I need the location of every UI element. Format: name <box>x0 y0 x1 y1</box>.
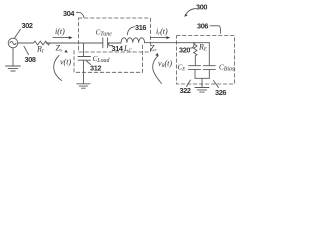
svg-text:320: 320 <box>179 46 190 55</box>
label 320 <box>179 45 194 55</box>
current i(t) arrow <box>53 27 73 39</box>
label 322 <box>180 80 191 95</box>
inductor L_C <box>121 38 145 54</box>
svg-text:300: 300 <box>196 3 207 12</box>
voltage v(t) curved arrow <box>54 56 72 81</box>
wire node into box <box>84 42 103 44</box>
resistor R_E <box>194 43 207 56</box>
dashed box 306 (receiver) <box>177 36 235 84</box>
capacitor C_Bias <box>203 64 235 73</box>
wire source to resistor <box>18 42 34 44</box>
svg-text:322: 322 <box>180 86 191 95</box>
label 326 <box>214 81 227 98</box>
svg-text:304: 304 <box>63 9 75 18</box>
wire inductor to right box <box>145 42 210 44</box>
wire source to ground <box>12 48 14 66</box>
label 302 <box>15 21 33 38</box>
capacitor C_Load <box>78 55 109 64</box>
wire main to C_Bias <box>208 43 210 66</box>
ground (source) <box>6 66 21 71</box>
ground (load) <box>77 84 90 88</box>
figure label 300 <box>184 3 207 17</box>
wire cap to ground <box>83 60 85 83</box>
capacitor C_Tune <box>96 28 113 48</box>
wire bottom rail <box>195 77 209 79</box>
label 314 <box>108 43 123 53</box>
label 306 <box>197 22 221 34</box>
svg-text:308: 308 <box>25 55 36 64</box>
impedance Zs arrow <box>56 44 68 54</box>
resistor R1 <box>34 41 51 54</box>
wire C_Bias to bottom rail <box>208 70 210 79</box>
label 308 <box>24 46 36 64</box>
AC source V1 <box>8 38 18 48</box>
svg-text:316: 316 <box>135 23 146 32</box>
label 304 <box>63 9 84 18</box>
dashed box (load region) <box>74 44 143 72</box>
wire R_E to cap <box>194 56 196 66</box>
svg-text:312: 312 <box>90 64 101 73</box>
svg-text:302: 302 <box>22 21 33 30</box>
svg-text:314: 314 <box>112 44 124 53</box>
capacitor C_E <box>178 64 201 73</box>
ground (receiver) <box>195 88 209 93</box>
svg-text:vR(t): vR(t) <box>158 59 172 69</box>
wire resistor to node <box>46 42 84 44</box>
label 316 <box>127 23 146 35</box>
current i_r(t) arrow <box>151 27 171 39</box>
svg-text:ir(t): ir(t) <box>156 27 168 37</box>
wire cap to inductor <box>108 42 121 44</box>
svg-text:306: 306 <box>197 22 208 31</box>
wire rail to ground <box>201 78 203 87</box>
load branch wire down <box>83 43 85 56</box>
label 312 <box>87 61 102 73</box>
voltage vR(t) curved arrow <box>153 56 173 84</box>
svg-text:326: 326 <box>215 88 226 97</box>
wire C_E to bottom rail <box>194 70 196 79</box>
svg-text:v(t): v(t) <box>60 58 71 67</box>
impedance Zr arrow <box>150 44 159 57</box>
dashed box 304 (tuning network) <box>79 18 151 52</box>
svg-text:i(t): i(t) <box>55 27 65 36</box>
